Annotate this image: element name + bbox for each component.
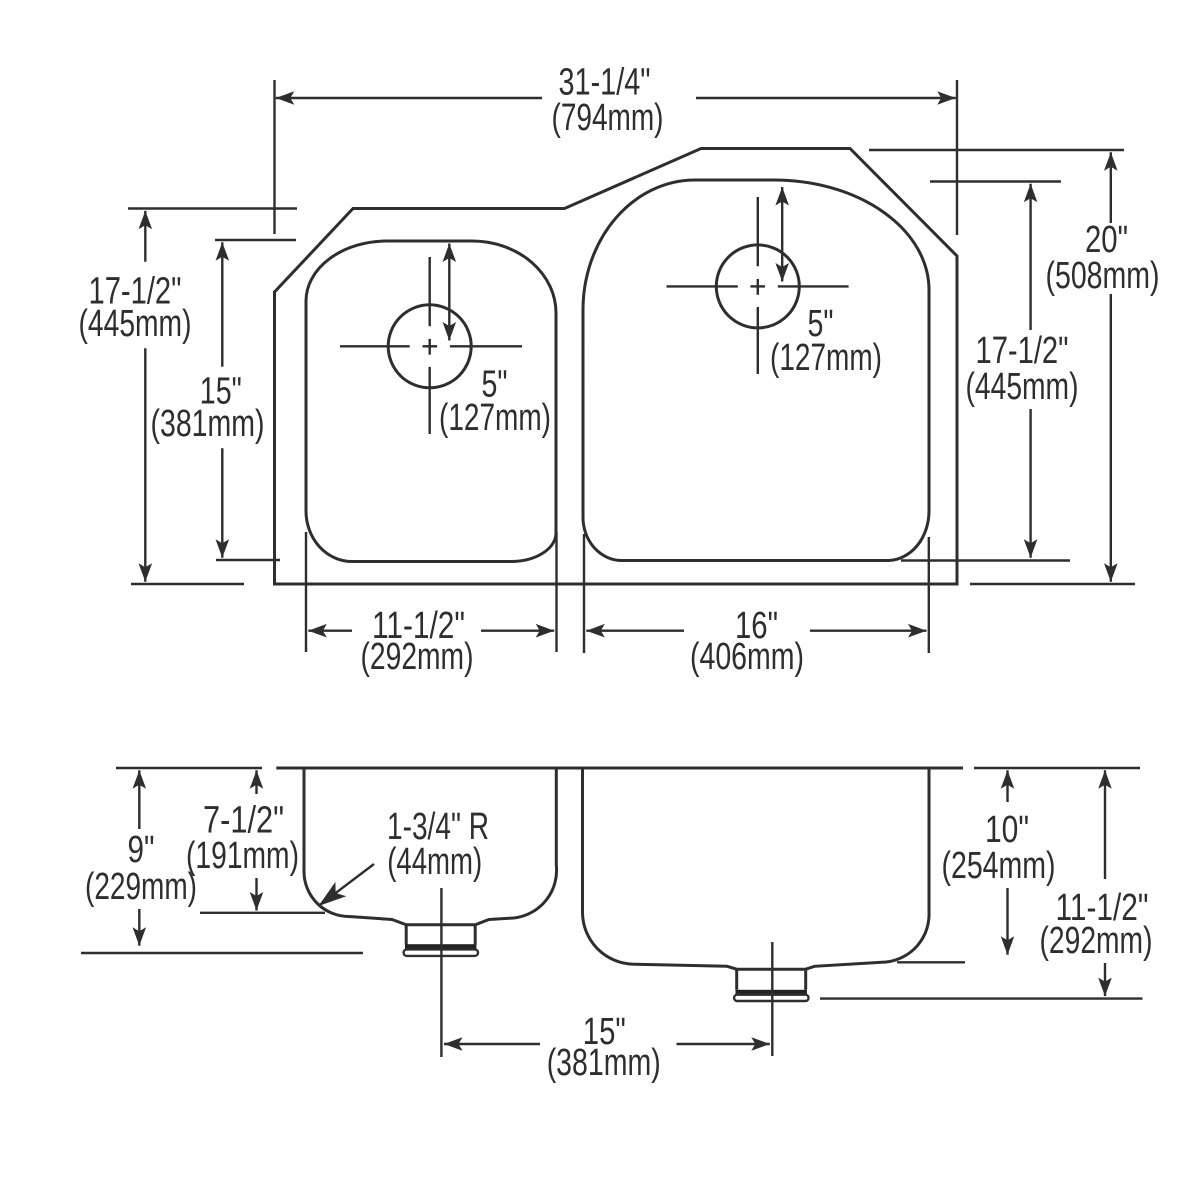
svg-text:9": 9": [128, 829, 155, 871]
dim 31-1/4" (794mm) top width: [275, 80, 958, 235]
dim 5" right bowl arrow: [781, 187, 783, 282]
deck extension right: [974, 767, 1140, 769]
svg-text:(445mm): (445mm): [966, 366, 1079, 408]
left drain centerline: [440, 888, 442, 1057]
dim 9" (229mm): [81, 770, 363, 953]
dim 16" (406mm) bottom of plan: [584, 534, 929, 653]
right drain centerline: [771, 942, 773, 1056]
sink outer outline: [275, 149, 958, 585]
left hole crosshair: [340, 257, 522, 434]
deck top line: [276, 767, 963, 770]
deck extension left: [116, 767, 262, 769]
svg-text:(292mm): (292mm): [1040, 920, 1153, 962]
svg-text:(44mm): (44mm): [387, 841, 482, 883]
right hole crosshair: [667, 197, 849, 374]
dim 11-1/2" (292mm) right section: [820, 770, 1143, 998]
svg-text:(794mm): (794mm): [552, 97, 664, 139]
svg-text:(191mm): (191mm): [186, 835, 299, 877]
svg-text:(381mm): (381mm): [547, 1042, 661, 1084]
dim 17-1/2" (445mm) left: [128, 209, 297, 585]
right faucet hole circle: [716, 245, 799, 328]
svg-text:(127mm): (127mm): [439, 397, 551, 439]
dim 15" (381mm) left: [215, 240, 296, 560]
right drain band: [736, 990, 807, 995]
dim 17-1/2" (445mm) right: [901, 182, 1070, 561]
svg-text:(254mm): (254mm): [942, 845, 1056, 887]
left bowl outline: [306, 241, 556, 562]
dim 20" (508mm) right: [869, 150, 1135, 584]
right bowl outline: [583, 180, 929, 561]
dim 15" (381mm) between drains: [444, 1043, 770, 1045]
dim 11-1/2" (292mm) bottom of plan: [306, 532, 557, 652]
right drain lip: [734, 995, 808, 1001]
left drain lip: [404, 949, 478, 956]
svg-text:(381mm): (381mm): [151, 403, 265, 445]
dim 7-1/2" (191mm): [200, 770, 325, 913]
dim 10" (254mm): [897, 770, 1008, 962]
svg-text:(127mm): (127mm): [770, 337, 882, 379]
svg-text:(229mm): (229mm): [85, 866, 197, 908]
svg-text:(445mm): (445mm): [79, 303, 192, 345]
left faucet hole circle: [388, 305, 471, 388]
svg-text:(292mm): (292mm): [361, 636, 474, 678]
svg-text:(508mm): (508mm): [1046, 255, 1160, 297]
right bowl section: [582, 768, 929, 990]
svg-text:(406mm): (406mm): [690, 636, 804, 678]
left drain band: [405, 944, 476, 949]
dim 5" left bowl arrow: [448, 244, 450, 341]
left bowl section: [304, 768, 557, 945]
